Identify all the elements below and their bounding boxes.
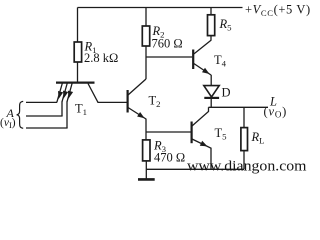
wire diode to output node <box>210 98 212 107</box>
svg-text:470 Ω: 470 Ω <box>154 151 185 165</box>
wire R1 top lead <box>77 8 79 43</box>
svg-text:+VCC(+5 V): +VCC(+5 V) <box>245 3 311 19</box>
svg-text:T1: T1 <box>75 102 87 118</box>
wire R1 bottom to T1 base <box>77 62 79 82</box>
wire R2 bottom / T2 collector vertical <box>145 46 147 79</box>
transistor T5 collector <box>192 107 209 126</box>
wire RL top lead <box>243 107 245 127</box>
transistor T1 emitter 2 <box>62 83 67 102</box>
transistor T1 base bar <box>56 81 95 83</box>
wire input line 2 <box>26 115 63 117</box>
wire R2 top lead <box>145 8 147 27</box>
wire T4 emitter to diode <box>210 75 212 86</box>
svg-text:D: D <box>222 86 231 100</box>
svg-text:www.diangon.com: www.diangon.com <box>187 159 307 175</box>
transistor T2 emitter diagonal <box>128 108 146 120</box>
wire RL bottom lead <box>243 151 245 170</box>
diode D <box>204 86 219 97</box>
wire input line 3 <box>26 127 68 129</box>
wire T2 emitter vertical to R3 <box>145 119 147 140</box>
wire input line 2 riser <box>61 102 63 117</box>
transistor T5 base bar <box>191 122 193 144</box>
svg-text:T5: T5 <box>215 126 228 142</box>
wire R3 bottom lead <box>145 161 147 179</box>
svg-text:R5: R5 <box>219 17 233 33</box>
svg-text:(vI): (vI) <box>0 117 16 130</box>
input brace <box>17 101 24 128</box>
transistor T1 emitter 1 <box>57 83 63 102</box>
wire T1 collector to T2 base <box>98 101 128 103</box>
wire R5 top lead <box>210 8 212 15</box>
wire node to T5 base <box>146 131 191 133</box>
transistor T2 base bar <box>126 90 128 113</box>
resistor R5 <box>208 15 215 36</box>
wire R2 node to T4 base <box>146 56 192 58</box>
wire R5 bottom to T4 collector <box>210 36 212 41</box>
transistor T4 base bar <box>192 50 194 70</box>
transistor T4 collector diagonal <box>194 40 211 54</box>
resistor R2 <box>142 26 149 46</box>
svg-text:T4: T4 <box>214 53 227 69</box>
wire output node line <box>209 106 269 108</box>
svg-text:RL: RL <box>251 130 265 146</box>
transistor T5 emitter diagonal <box>192 139 211 169</box>
ground <box>138 178 155 181</box>
wire input line 3 riser <box>66 102 68 129</box>
resistor R1 <box>74 42 81 62</box>
transistor T1 emitter 3 <box>67 83 72 102</box>
wire VCC top rail <box>78 7 243 9</box>
transistor T2 collector diagonal <box>128 79 146 95</box>
resistor RL <box>241 128 248 151</box>
transistor T4 emitter diagonal <box>194 64 211 76</box>
svg-text:2.8 kΩ: 2.8 kΩ <box>84 51 118 65</box>
wire bottom rail <box>146 168 244 170</box>
svg-text:T2: T2 <box>149 94 161 110</box>
svg-text:760 Ω: 760 Ω <box>152 37 183 51</box>
resistor R3 <box>143 140 150 161</box>
transistor T1 collector diagonal <box>88 84 98 103</box>
wire input line 1 <box>26 101 57 103</box>
